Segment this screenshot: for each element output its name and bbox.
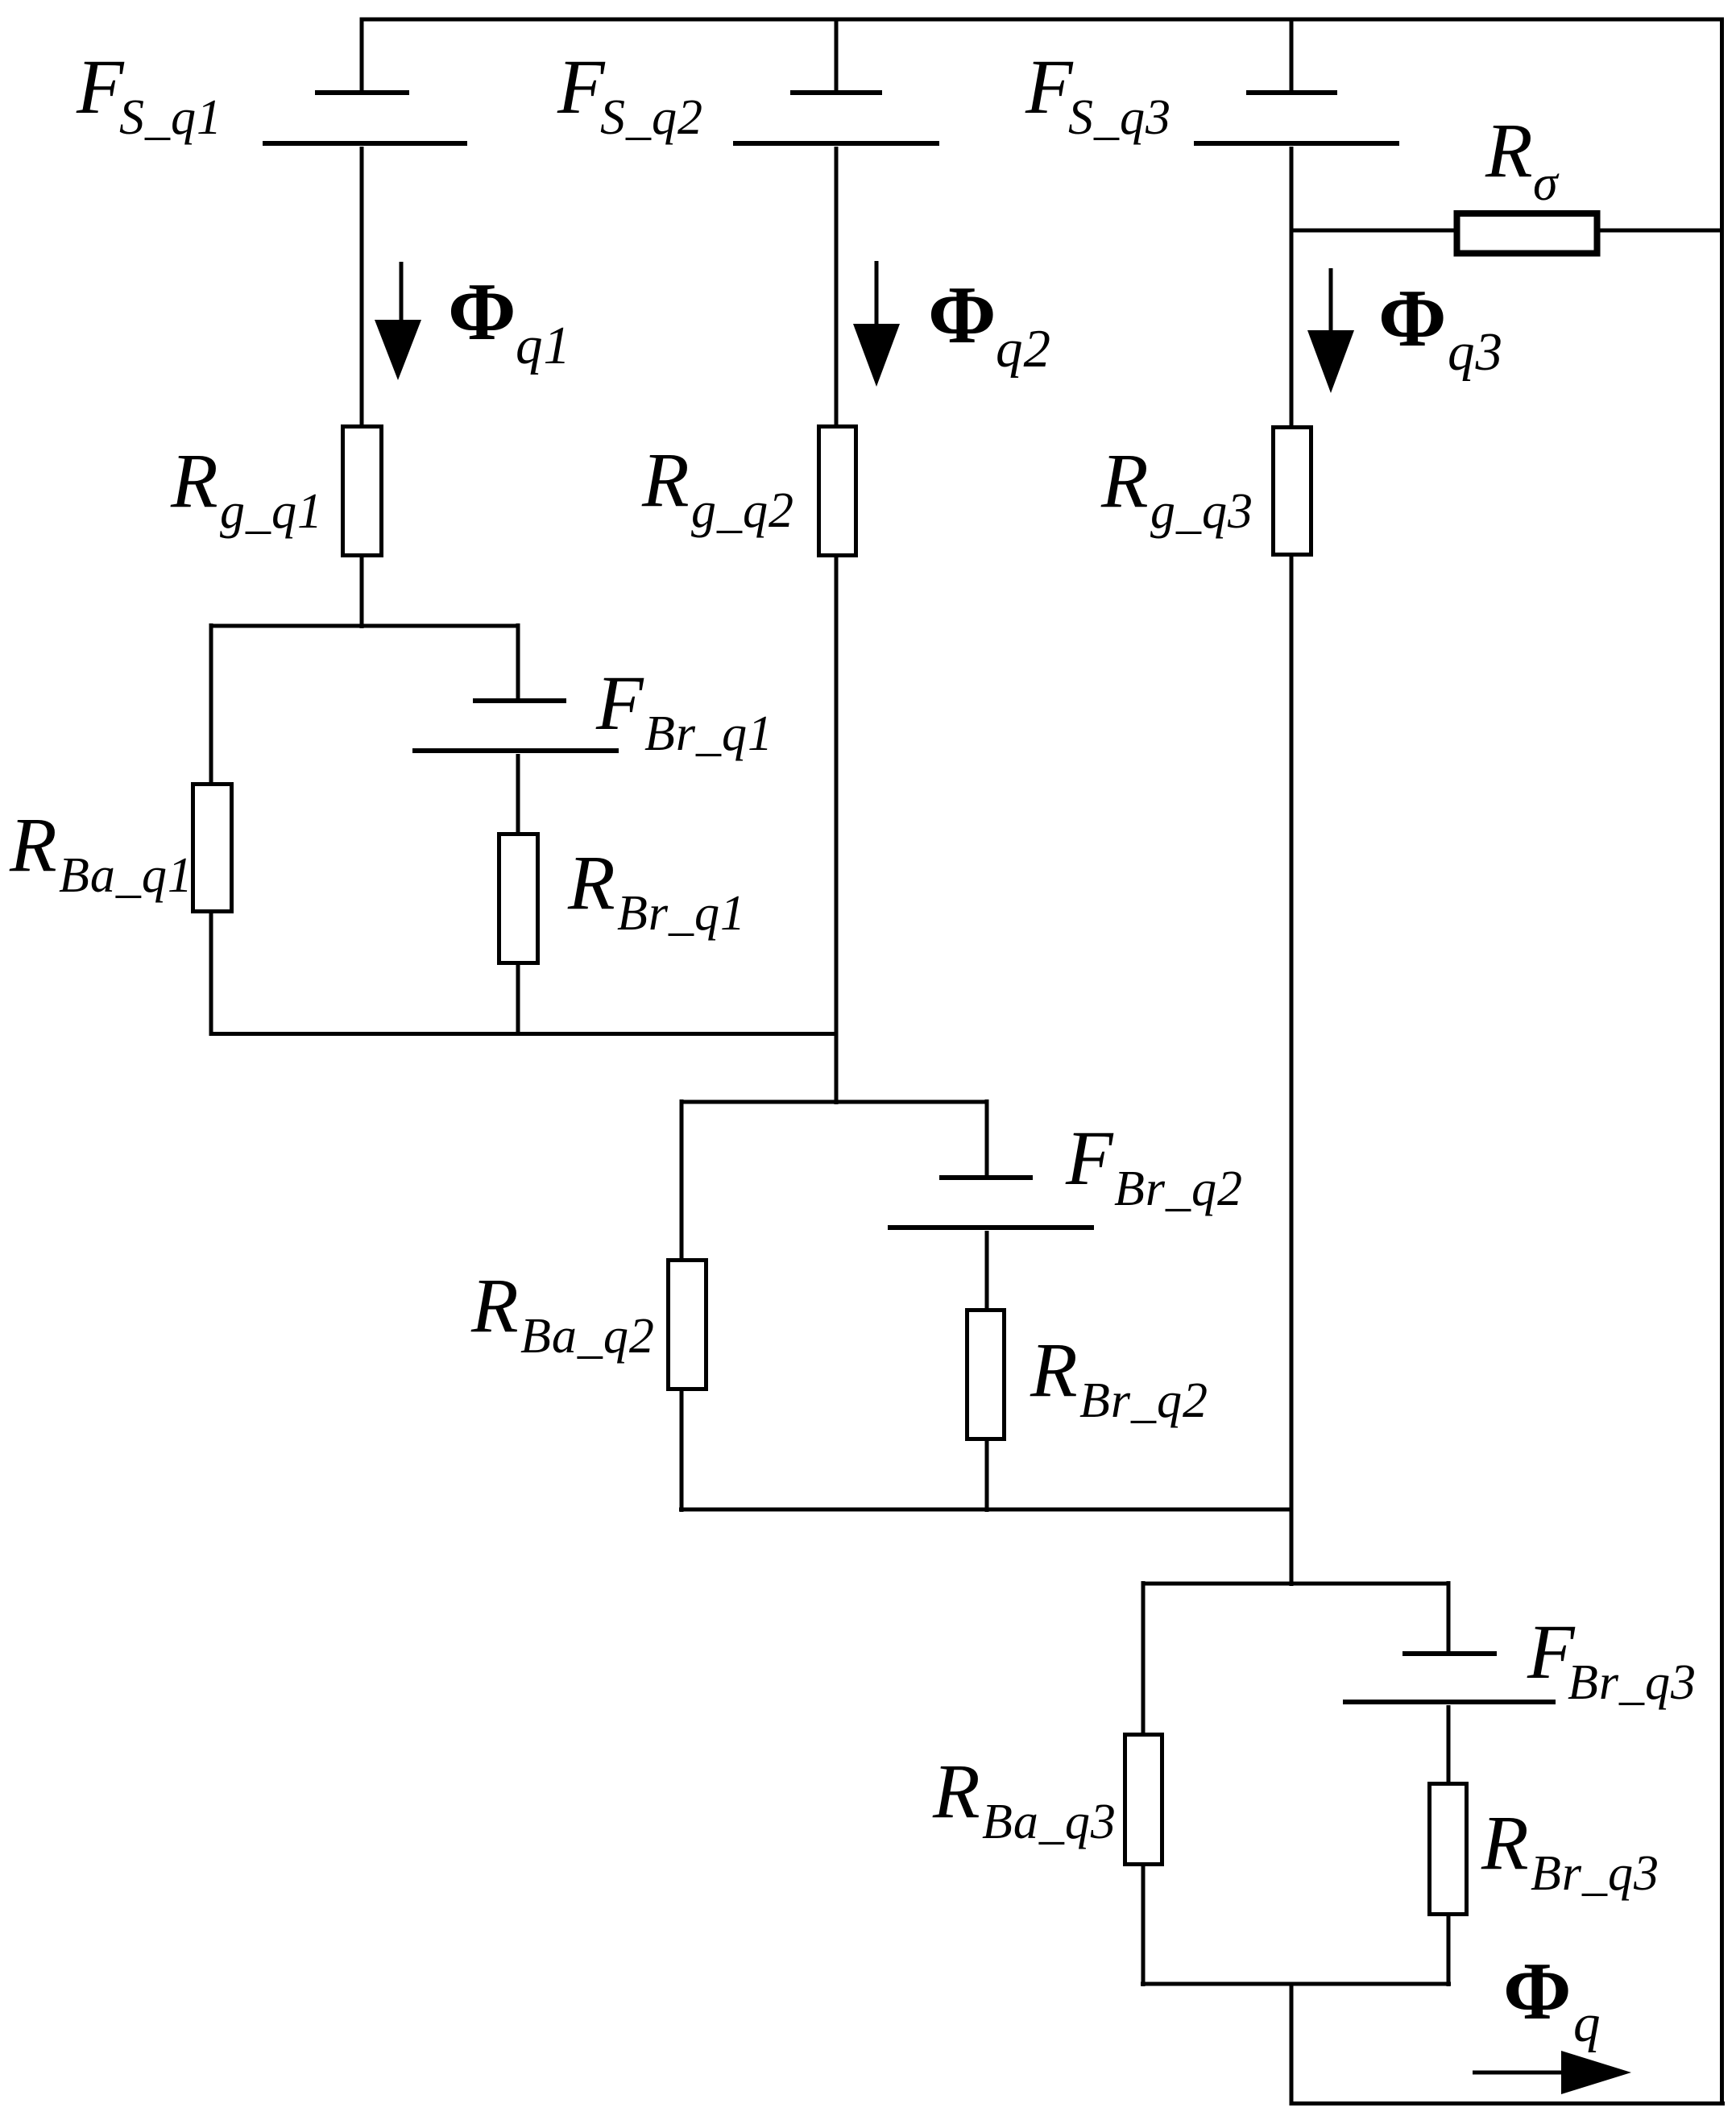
label R_g_q1 <box>170 437 323 539</box>
wire box q1 left upper <box>209 623 213 785</box>
wire branch q2: top rail to F_S_q2 <box>835 19 839 90</box>
wire box q3 bottom <box>1141 1982 1451 1986</box>
wire box q1 right upper <box>516 623 520 698</box>
resistor R_Ba_q3 <box>1125 1735 1162 1865</box>
wire box q3 left upper <box>1141 1581 1146 1735</box>
flux arrow PHI_q1 <box>375 262 421 380</box>
svg-text:R: R <box>567 839 615 925</box>
svg-text:q1: q1 <box>516 316 571 375</box>
label PHI_q output <box>1503 1946 1601 2053</box>
svg-text:F: F <box>595 660 644 746</box>
svg-text:F: F <box>76 43 125 130</box>
label R_Br_q3 <box>1481 1799 1659 1901</box>
svg-text:Φ: Φ <box>928 270 996 361</box>
resistor R_g_q3 <box>1274 428 1311 555</box>
wire branch q1: F_S_q1 to R_g_q1 <box>360 147 364 427</box>
label F_Br_q2 <box>1065 1115 1243 1216</box>
wire box q1 top <box>211 624 518 628</box>
wire box q2 left lower <box>680 1391 684 1512</box>
label R_Ba_q1 <box>9 801 193 903</box>
wire box q3 top <box>1143 1582 1448 1586</box>
svg-text:R: R <box>1485 107 1533 193</box>
resistor R_Ba_q1 <box>193 785 232 912</box>
wire R_sigma horizontal to right rail <box>1291 229 1722 233</box>
svg-text:σ: σ <box>1533 156 1560 211</box>
resistor R_Ba_q2 <box>669 1261 706 1389</box>
resistor R_Br_q2 <box>967 1311 1005 1439</box>
label F_S_q2 <box>557 43 703 145</box>
source F_Br_q2 battery plates <box>888 1178 1094 1228</box>
wire branch q2: F_S_q2 to R_g_q2 <box>835 147 839 427</box>
label PHI_q3 <box>1378 273 1503 382</box>
svg-text:S_q1: S_q1 <box>119 90 222 145</box>
svg-text:g_q2: g_q2 <box>691 483 794 538</box>
resistor R_g_q2 <box>819 427 856 556</box>
flux arrow PHI_q3 <box>1307 268 1354 393</box>
label PHI_q1 <box>448 267 571 375</box>
wire box q2 right upper <box>985 1099 989 1175</box>
wire branch q3: R_g_q3 down to box q3 top (through box q2 bottom junction) <box>1290 557 1294 1586</box>
wire box q2 left upper <box>680 1099 684 1261</box>
resistor R_Br_q1 <box>499 834 538 963</box>
svg-text:S_q2: S_q2 <box>600 90 703 145</box>
wire branch q3: box q3 bottom to bottom rail <box>1290 1984 1294 2105</box>
svg-text:Br_q2: Br_q2 <box>1079 1373 1208 1428</box>
label R_g_q3 <box>1100 437 1253 539</box>
svg-text:Φ: Φ <box>1378 273 1447 364</box>
svg-text:F: F <box>557 43 606 130</box>
svg-text:R: R <box>1030 1327 1078 1413</box>
wire branch q2: R_g_q2 down to box q2 top (through box q1 bottom junction) <box>835 557 839 1104</box>
wire branch q1: top rail to F_S_q1 <box>360 19 364 90</box>
svg-text:Br_q1: Br_q1 <box>617 886 746 941</box>
wire top rail <box>360 18 1725 22</box>
svg-text:g_q3: g_q3 <box>1150 484 1253 539</box>
wire bottom rail <box>1290 2101 1726 2106</box>
svg-text:R: R <box>170 437 218 524</box>
svg-text:F: F <box>1025 43 1074 130</box>
svg-text:Ba_q2: Ba_q2 <box>520 1309 655 1364</box>
svg-text:Φ: Φ <box>448 267 516 358</box>
wire F_Br_q1 to R_Br_q1 <box>516 754 520 834</box>
svg-text:R: R <box>1481 1799 1529 1886</box>
flux arrow PHI_q2 <box>853 261 900 387</box>
svg-text:F: F <box>1065 1115 1114 1201</box>
resistor R_sigma <box>1457 213 1597 254</box>
svg-text:Br_q3: Br_q3 <box>1568 1655 1697 1710</box>
label R_Br_q2 <box>1030 1327 1208 1428</box>
svg-text:S_q3: S_q3 <box>1068 90 1171 145</box>
label R_Br_q1 <box>567 839 746 941</box>
source F_Br_q3 battery plates <box>1343 1654 1556 1702</box>
label R_Ba_q3 <box>932 1748 1117 1849</box>
wire box q3 left lower <box>1141 1866 1146 1986</box>
label F_Br_q1 <box>595 660 773 761</box>
svg-text:R: R <box>1100 437 1149 524</box>
svg-text:Ba_q1: Ba_q1 <box>59 848 193 903</box>
source F_Br_q1 battery plates <box>412 701 619 751</box>
svg-text:q3: q3 <box>1448 322 1503 382</box>
wire box q1 bottom to branch q2 <box>209 1032 839 1036</box>
wire R_Br_q2 to box q2 bottom <box>985 1441 989 1512</box>
svg-text:Ba_q3: Ba_q3 <box>982 1795 1117 1849</box>
source F_S_q2 battery plates <box>733 93 939 143</box>
wire F_Br_q3 to R_Br_q3 <box>1447 1705 1451 1784</box>
wire right rail <box>1720 18 1724 2106</box>
wire R_Br_q3 to box q3 bottom <box>1447 1916 1451 1986</box>
wire branch q1: R_g_q1 to box q1 top <box>360 557 364 628</box>
label R_Ba_q2 <box>470 1262 655 1364</box>
wire box q3 right upper <box>1447 1581 1451 1651</box>
wire branch q3: F_S_q3 down to R_g_q3 <box>1290 147 1294 427</box>
label F_S_q3 <box>1025 43 1171 145</box>
svg-text:R: R <box>9 801 57 888</box>
svg-text:Φ: Φ <box>1503 1946 1572 2037</box>
label PHI_q2 <box>928 270 1051 379</box>
label F_Br_q3 <box>1527 1609 1697 1710</box>
resistor R_Br_q3 <box>1430 1784 1467 1915</box>
wire box q1 left lower <box>209 913 213 1036</box>
wire R_Br_q1 to box q1 bottom <box>516 965 520 1036</box>
svg-text:Br_q2: Br_q2 <box>1114 1161 1243 1216</box>
svg-text:Br_q1: Br_q1 <box>644 706 773 761</box>
svg-text:R: R <box>470 1262 519 1348</box>
resistor R_g_q1 <box>343 427 382 556</box>
source F_S_q3 battery plates <box>1194 93 1399 143</box>
svg-text:q: q <box>1573 1994 1601 2053</box>
wire box q2 bottom to branch q3 <box>679 1508 1291 1512</box>
label R_sigma <box>1485 107 1560 211</box>
wire branch q3: top rail to F_S_q3 <box>1290 19 1294 90</box>
wire box q2 top <box>682 1100 987 1104</box>
label R_g_q2 <box>641 437 794 538</box>
label F_S_q1 <box>76 43 222 145</box>
source F_S_q1 battery plates <box>263 93 467 143</box>
svg-text:q2: q2 <box>996 319 1051 379</box>
flux arrow PHI_q output <box>1473 2051 1631 2094</box>
svg-text:Br_q3: Br_q3 <box>1531 1846 1659 1901</box>
svg-text:g_q1: g_q1 <box>220 484 323 539</box>
svg-text:R: R <box>932 1748 980 1834</box>
wire F_Br_q2 to R_Br_q2 <box>985 1231 989 1311</box>
svg-text:R: R <box>641 437 690 523</box>
